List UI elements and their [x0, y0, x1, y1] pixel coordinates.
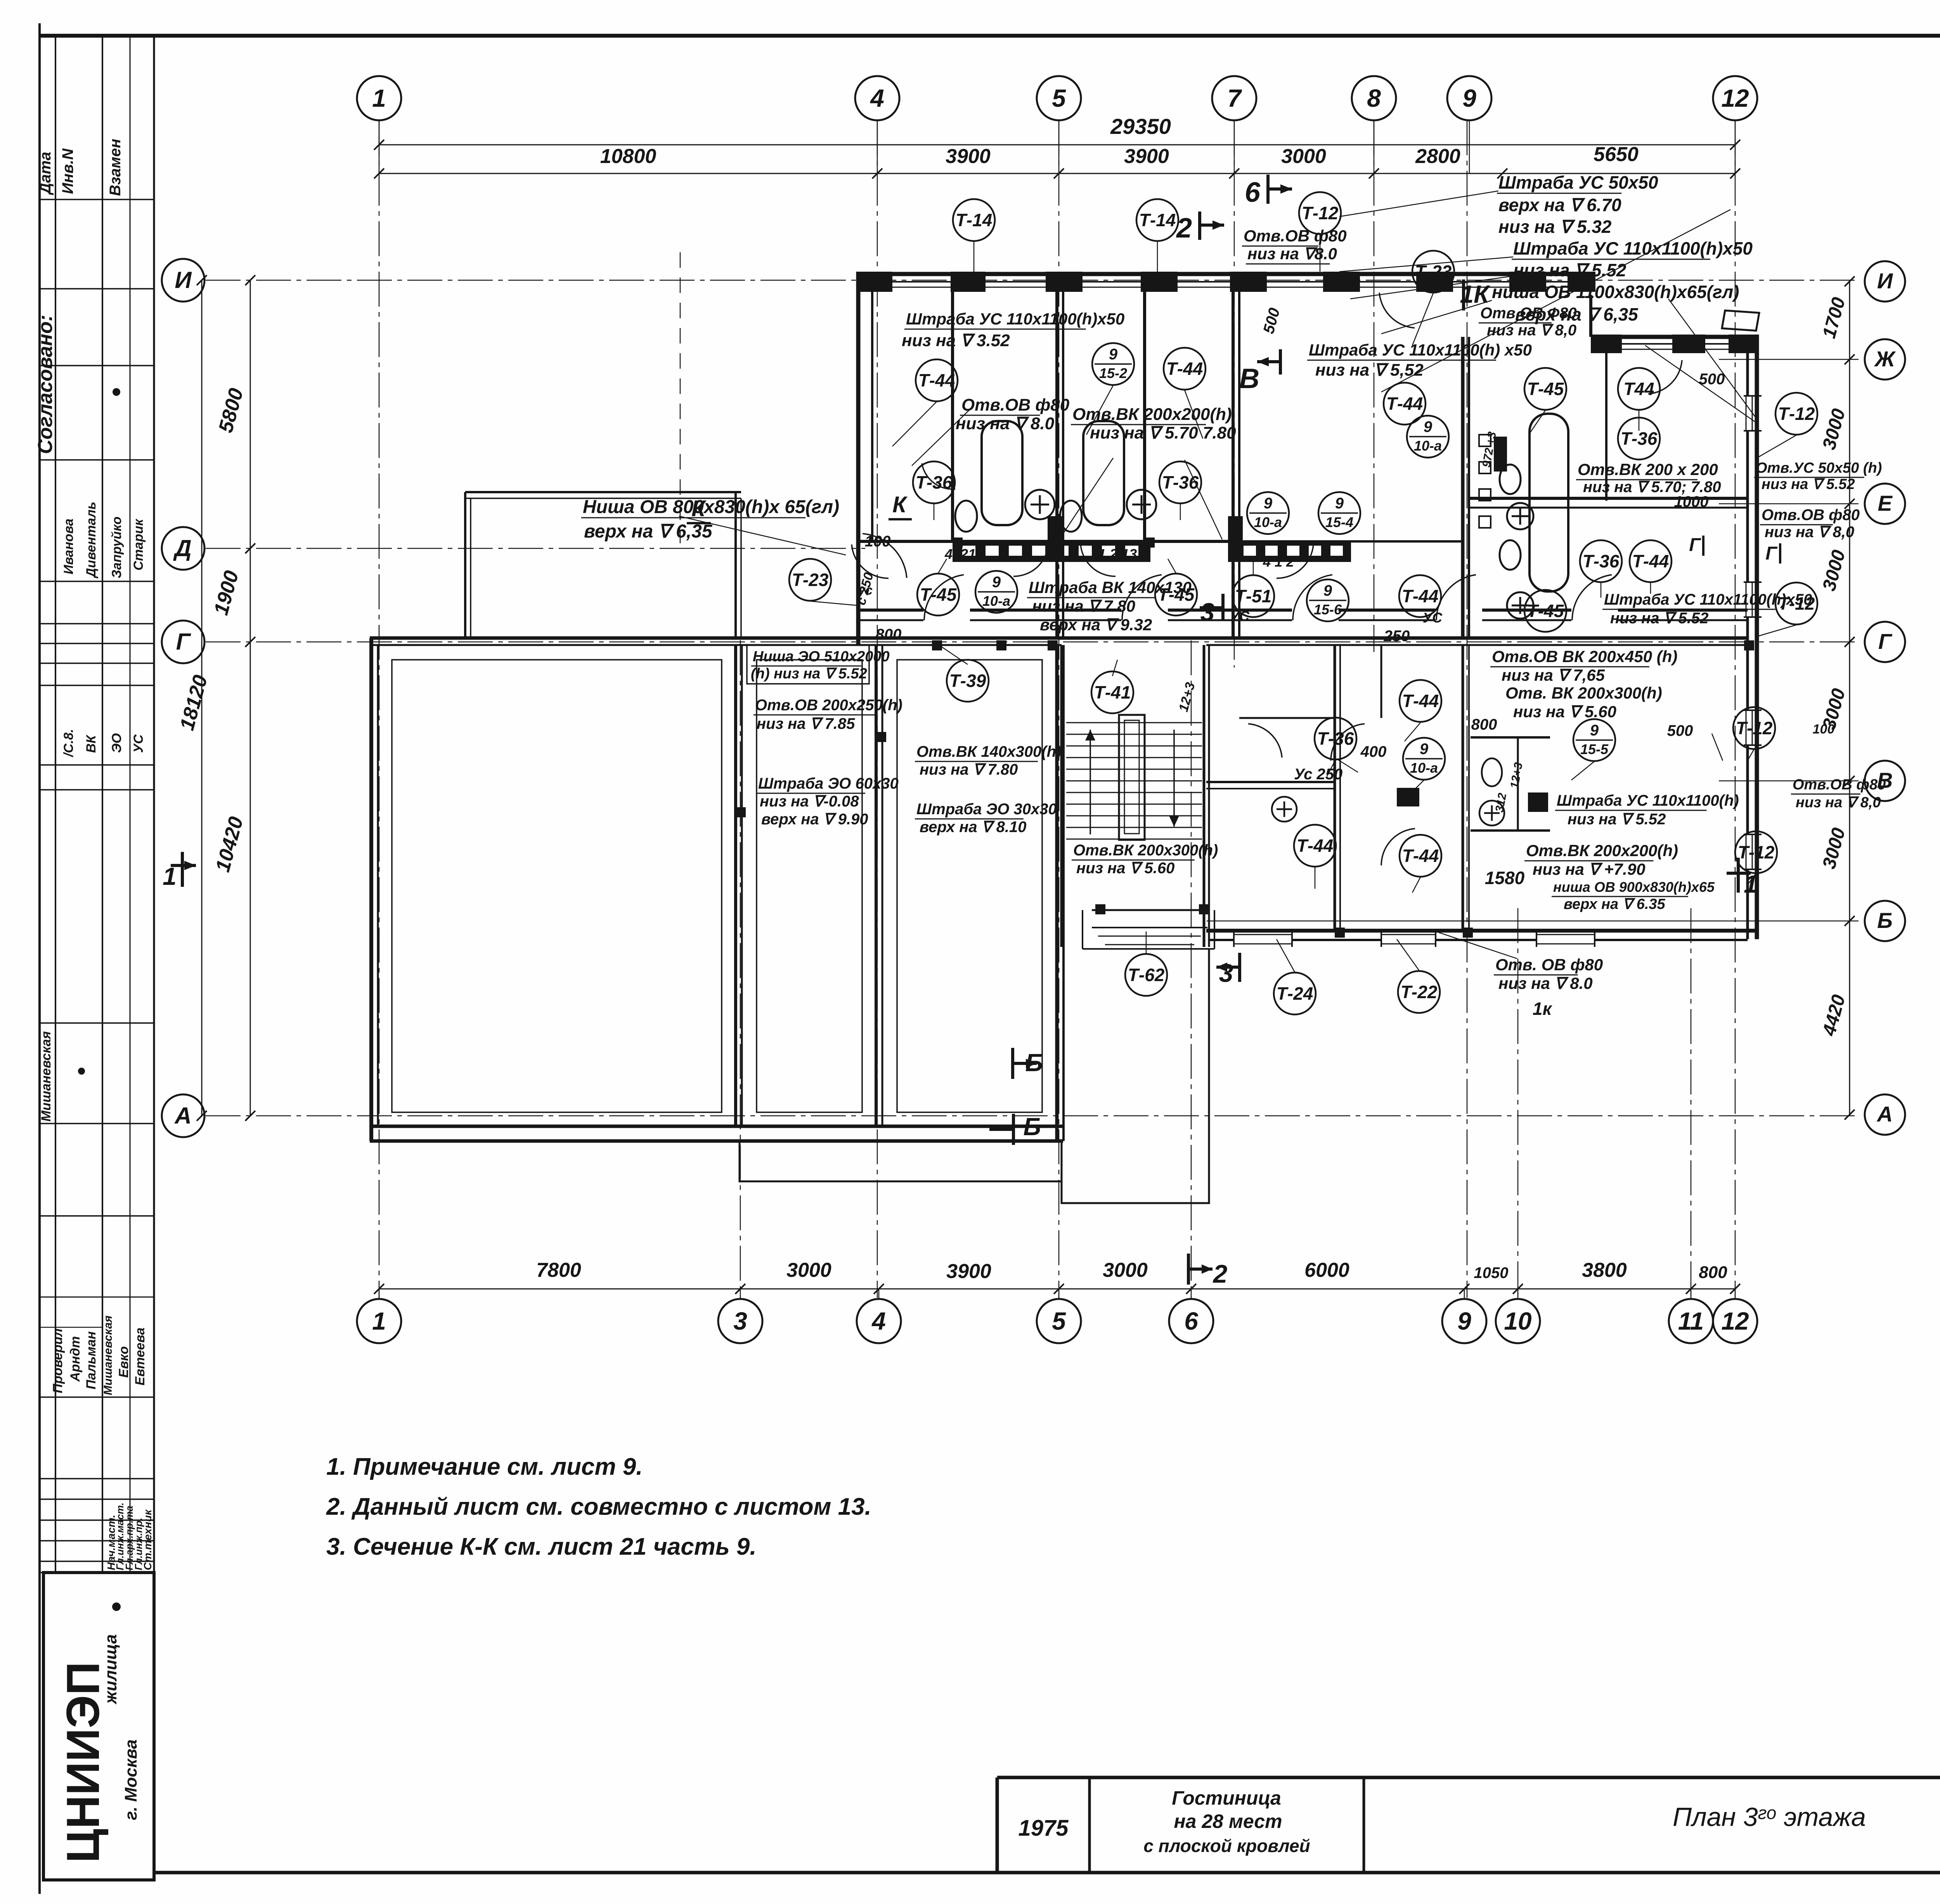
K dashed section line: [680, 252, 681, 543]
svg-text:В: В: [1239, 363, 1259, 394]
svg-text:5: 5: [1052, 84, 1066, 112]
svg-text:Старик: Старик: [131, 518, 146, 571]
svg-text:9: 9: [1424, 418, 1432, 435]
svg-text:Т-44: Т-44: [1166, 359, 1203, 379]
svg-text:Т-36: Т-36: [1583, 551, 1620, 571]
label circle Т-45: [917, 574, 959, 616]
svg-text:12: 12: [1721, 84, 1749, 112]
svg-text:Т-12: Т-12: [1778, 404, 1815, 424]
label circle Т44: [1618, 368, 1660, 410]
label circle Т-51: [1232, 575, 1274, 617]
label circle Т-44: [1164, 348, 1206, 390]
svg-text:Согласовано:: Согласовано:: [34, 315, 57, 454]
svg-text:6: 6: [1245, 177, 1261, 208]
svg-text:Т-44: Т-44: [1386, 394, 1423, 414]
built-in cabinets dark band left: [953, 540, 1150, 562]
svg-text:10-а: 10-а: [1410, 760, 1438, 776]
svg-text:Отв.ВК 200х200(h): Отв.ВК 200х200(h): [1072, 405, 1232, 424]
svg-text:Ниша ЭО 510х2000: Ниша ЭО 510х2000: [753, 649, 890, 665]
svg-text:4 1 2: 4 1 2: [1263, 554, 1294, 570]
svg-text:низ на ∇ 5.52: низ на ∇ 5.52: [1568, 811, 1666, 828]
label circle Т-44: [1400, 680, 1441, 722]
svg-text:низ на ∇ 7.85: низ на ∇ 7.85: [757, 715, 855, 732]
right axis circles: [1865, 261, 1905, 302]
svg-text:Мишаневская: Мишаневская: [102, 1315, 114, 1395]
horizontal axis lines: [206, 280, 1859, 281]
svg-text:Е: Е: [1878, 491, 1893, 515]
stair enclosure walls: [1060, 645, 1063, 947]
window niche flag 1K: [1722, 310, 1759, 331]
corridor south wall / Г axis wall: [370, 636, 1748, 640]
svg-text:400: 400: [1360, 743, 1387, 760]
upper annex hall rectangle: [465, 491, 741, 493]
svg-text:верх на ∇ 9.32: верх на ∇ 9.32: [1040, 616, 1152, 634]
svg-text:низ на ∇ 5.70 7.80: низ на ∇ 5.70 7.80: [1090, 423, 1236, 442]
sidebar stamp CNIIEP block: [43, 1573, 154, 1880]
svg-text:Т-44: Т-44: [1632, 551, 1669, 571]
built-in cabinets dark band right: [1235, 540, 1351, 562]
top overall dimension 29350: [379, 144, 1735, 146]
annex inner inset lines: [392, 660, 722, 1112]
corridor north wall: [858, 609, 923, 612]
svg-text:верх на ∇ 9.90: верх на ∇ 9.90: [761, 811, 868, 828]
svg-text:Отв. ОВ ф80: Отв. ОВ ф80: [1495, 955, 1603, 974]
label circle Т-22: [1398, 971, 1440, 1013]
svg-text:Гостиница: Гостиница: [1172, 1787, 1281, 1809]
label circle Т-45: [1524, 590, 1566, 632]
annex west wall: [369, 638, 373, 1141]
svg-text:Т-51: Т-51: [1235, 586, 1272, 606]
right wing wc: [1500, 465, 1521, 494]
label circle Т-12: [1775, 393, 1817, 435]
svg-text:15-5: 15-5: [1580, 741, 1609, 757]
svg-text:3000: 3000: [786, 1259, 831, 1281]
svg-text:9: 9: [1323, 582, 1332, 599]
north wall of right wing: [1591, 335, 1758, 339]
svg-text:Отв.ОВ ф80: Отв.ОВ ф80: [1793, 777, 1886, 793]
svg-text:800: 800: [1471, 716, 1497, 733]
label circle 9|15-2: [1092, 343, 1134, 385]
svg-text:Штраба УС 110х1100(h)х50: Штраба УС 110х1100(h)х50: [1604, 591, 1812, 608]
svg-text:Т-23: Т-23: [1415, 262, 1452, 282]
sidebar column lines: [55, 36, 56, 1573]
svg-text:10-а: 10-а: [1414, 438, 1442, 454]
svg-text:9: 9: [1457, 1307, 1471, 1335]
bathtub 1: [982, 421, 1022, 525]
svg-text:10: 10: [1504, 1307, 1531, 1335]
svg-text:9: 9: [1109, 346, 1118, 363]
label circle Т-12: [1775, 583, 1817, 624]
svg-text:3900: 3900: [946, 1260, 991, 1283]
svg-text:г. Москва: г. Москва: [121, 1739, 140, 1820]
label circle Т-12: [1735, 831, 1777, 873]
svg-text:А: А: [174, 1103, 191, 1129]
wc 1: [955, 501, 977, 532]
label circle Т-44: [1400, 835, 1441, 877]
svg-text:Т-36: Т-36: [1317, 728, 1354, 749]
svg-text:Т-14: Т-14: [1139, 210, 1176, 230]
svg-text:Т-36: Т-36: [1162, 472, 1199, 492]
svg-text:Отв.ВК 200 х 200: Отв.ВК 200 х 200: [1578, 460, 1718, 479]
label circle Т-36: [913, 461, 955, 503]
svg-text:250: 250: [1384, 628, 1410, 645]
svg-text:Евтеева: Евтеева: [133, 1328, 147, 1386]
label circle Т-14: [1136, 199, 1178, 241]
svg-text:верх на ∇ 6,35: верх на ∇ 6,35: [584, 521, 713, 542]
svg-text:11: 11: [1678, 1307, 1704, 1335]
svg-text:Штраба УС 110х1100(h)х50: Штраба УС 110х1100(h)х50: [1513, 238, 1753, 258]
svg-text:жилища: жилища: [101, 1634, 120, 1705]
annex partitions: [734, 645, 737, 1126]
svg-text:Отв.ОВ Ф80: Отв.ОВ Ф80: [1480, 305, 1577, 322]
partition along E axis in right wing: [1469, 497, 1748, 500]
svg-text:Т-44: Т-44: [1402, 586, 1439, 606]
svg-text:Штраба ЭО 60х30: Штраба ЭО 60х30: [758, 775, 899, 792]
label circle Т-12: [1299, 192, 1341, 234]
svg-text:Ст.техник: Ст.техник: [142, 1509, 154, 1570]
svg-text:5650: 5650: [1594, 143, 1639, 166]
bottom dimension line: [379, 1288, 1735, 1290]
svg-text:Б: Б: [1023, 1113, 1041, 1141]
vertical axis lines: [379, 120, 380, 1298]
label circle Т-44: [1294, 825, 1336, 867]
svg-text:15-6: 15-6: [1314, 602, 1342, 617]
svg-text:низ на ∇ 5.52: низ на ∇ 5.52: [1762, 476, 1855, 492]
right wing tall bathtub: [1529, 414, 1568, 591]
svg-text:Т-44: Т-44: [1402, 691, 1439, 711]
svg-text:2: 2: [1212, 1259, 1228, 1288]
svg-text:Г: Г: [1689, 535, 1701, 555]
svg-text:Т-12: Т-12: [1738, 842, 1775, 862]
svg-text:УС: УС: [131, 734, 146, 753]
svg-text:15-2: 15-2: [1099, 365, 1127, 381]
svg-text:1: 1: [372, 1307, 386, 1335]
svg-text:Ниша ОВ 800х830(h)х 65(гл): Ниша ОВ 800х830(h)х 65(гл): [583, 497, 839, 517]
svg-text:Т-45: Т-45: [1527, 379, 1564, 399]
svg-text:Г: Г: [176, 629, 192, 655]
label circle Т-24: [1274, 973, 1316, 1014]
svg-text:ЭО: ЭО: [109, 733, 124, 753]
svg-text:низ на ∇ 5.52: низ на ∇ 5.52: [1610, 610, 1708, 627]
left axis circles: [162, 259, 204, 302]
bottom axis circles: [357, 1299, 401, 1343]
svg-text:ус: ус: [857, 583, 873, 598]
svg-text:1975: 1975: [1018, 1816, 1069, 1841]
label circle Т-36: [1580, 540, 1622, 582]
svg-text:низ на ∇ 5.60: низ на ∇ 5.60: [1076, 860, 1174, 877]
label circle 9|15-5: [1573, 719, 1615, 761]
svg-text:8: 8: [1367, 84, 1381, 112]
svg-text:низ на ∇ 8.0: низ на ∇ 8.0: [956, 414, 1055, 433]
bathtub 2: [1083, 421, 1124, 525]
svg-text:Дата: Дата: [37, 152, 54, 195]
svg-text:К: К: [892, 492, 908, 517]
east outer wall: [1755, 335, 1759, 939]
svg-text:ниша ОВ 900х830(h)х65: ниша ОВ 900х830(h)х65: [1553, 879, 1715, 895]
svg-text:Штраба ВК 140х130: Штраба ВК 140х130: [1029, 578, 1192, 597]
north outer wall of upper block: [856, 272, 1595, 276]
svg-text:9: 9: [992, 574, 1001, 591]
svg-text:(h) низ на ∇ 5.52: (h) низ на ∇ 5.52: [751, 666, 867, 682]
svg-text:Отв.ОВ ВК 200х450 (h): Отв.ОВ ВК 200х450 (h): [1492, 647, 1677, 666]
right block bathroom cluster: [1471, 736, 1550, 739]
svg-text:1000: 1000: [1674, 493, 1709, 510]
svg-text:10-а: 10-а: [1254, 514, 1282, 530]
svg-text:3900: 3900: [946, 145, 991, 168]
label circle Т-45: [1524, 368, 1566, 410]
svg-text:4: 4: [871, 1307, 886, 1335]
svg-text:Ж: Ж: [1874, 347, 1896, 371]
svg-text:800: 800: [1699, 1263, 1727, 1282]
label circle Т-12: [1733, 707, 1775, 749]
wc 2: [1060, 501, 1082, 532]
svg-text:29350: 29350: [1110, 114, 1171, 139]
annotations annex rooms: [747, 645, 869, 684]
svg-text:низ на ∇ 3.52: низ на ∇ 3.52: [902, 331, 1010, 350]
svg-text:Т-44: Т-44: [1402, 846, 1439, 866]
label circle Т-62: [1125, 954, 1167, 996]
svg-text:7800: 7800: [536, 1259, 581, 1281]
label circle 9|10-а: [975, 571, 1017, 613]
svg-text:5: 5: [1052, 1307, 1066, 1335]
svg-text:низ на ∇ +7.90: низ на ∇ +7.90: [1533, 860, 1646, 878]
svg-text:УС: УС: [1230, 608, 1250, 624]
svg-text:Проверил: Проверил: [50, 1328, 65, 1393]
label circle Т-44: [1630, 540, 1672, 582]
svg-text:Т-12: Т-12: [1302, 203, 1339, 223]
bathroom band wall: [858, 540, 1234, 543]
svg-text:3: 3: [1219, 959, 1233, 987]
svg-text:100: 100: [865, 533, 891, 550]
svg-text:2800: 2800: [1415, 145, 1460, 168]
interior partitions of upper block: [951, 290, 954, 541]
svg-text:низ на ∇ 8,0: низ на ∇ 8,0: [1765, 524, 1854, 541]
svg-text:А: А: [1876, 1102, 1893, 1126]
page frame: [38, 23, 41, 1894]
svg-text:Т-24: Т-24: [1277, 983, 1313, 1004]
label circle Т-23: [1412, 251, 1454, 293]
svg-text:Б: Б: [1877, 908, 1893, 933]
svg-text:Т-12: Т-12: [1736, 718, 1773, 738]
svg-text:Штраба УС 110х1100(h)х50: Штраба УС 110х1100(h)х50: [906, 310, 1124, 328]
svg-text:низ на ∇ 5.32: низ на ∇ 5.32: [1498, 217, 1612, 237]
label circle 9|15-4: [1318, 492, 1360, 534]
sidebar row dividers: [40, 199, 154, 200]
svg-text:10800: 10800: [600, 145, 656, 168]
svg-text:3000: 3000: [1103, 1259, 1148, 1281]
title block: [997, 1776, 1940, 1779]
leader lines: [1381, 210, 1730, 392]
svg-text:1 2 13: 1 2 13: [1098, 546, 1137, 562]
svg-text:Штраба ЭО 30х30: Штраба ЭО 30х30: [916, 801, 1057, 818]
svg-text:низ на ∇ 8,0: низ на ∇ 8,0: [1487, 322, 1576, 339]
svg-text:800: 800: [876, 626, 902, 643]
label circle 9|10-а: [1403, 738, 1445, 780]
svg-text:Отв.ОВ 200х250(h): Отв.ОВ 200х250(h): [755, 697, 902, 714]
label circle Т-14: [953, 199, 995, 241]
label circle Т-44: [1384, 383, 1426, 425]
svg-text:низ на ∇ 5.52: низ на ∇ 5.52: [1513, 260, 1626, 280]
svg-text:Т-41: Т-41: [1094, 682, 1131, 702]
svg-text:1к: 1к: [1533, 999, 1553, 1019]
svg-text:с плоской кровлей: с плоской кровлей: [1143, 1836, 1310, 1856]
svg-text:3900: 3900: [1124, 145, 1169, 168]
svg-text:Инв.N: Инв.N: [59, 148, 76, 194]
right dimension line: [1849, 281, 1850, 1115]
svg-text:Штраба УС 50х50: Штраба УС 50х50: [1498, 172, 1658, 192]
svg-text:3800: 3800: [1582, 1259, 1627, 1281]
door arcs: [924, 575, 964, 620]
label circle Т-36: [1315, 718, 1356, 760]
svg-text:1: 1: [372, 84, 386, 112]
annex bottom wall: [370, 1125, 1063, 1128]
svg-text:Отв.УС 50х50 (h): Отв.УС 50х50 (h): [1756, 460, 1882, 476]
svg-text:Т-22: Т-22: [1401, 982, 1438, 1002]
stair arrows: [1090, 730, 1091, 834]
svg-text:Арндт: Арндт: [68, 1336, 83, 1382]
svg-text:Отв.ВК 200х300(h): Отв.ВК 200х300(h): [1073, 842, 1218, 859]
svg-text:9: 9: [1335, 495, 1344, 512]
svg-text:1580: 1580: [1485, 868, 1525, 888]
south wall of right block: [1206, 929, 1757, 933]
svg-text:на 28 мест: на 28 мест: [1174, 1810, 1282, 1832]
small partitions mid rooms: [1239, 717, 1335, 719]
label circle Т-39: [947, 660, 989, 702]
svg-text:4321ч: 4321ч: [944, 546, 984, 562]
svg-text:низ на ∇ 8.0: низ на ∇ 8.0: [1498, 974, 1593, 992]
label circle Т-44: [916, 359, 958, 401]
svg-text:Т-62: Т-62: [1128, 965, 1165, 985]
label circle 9|15-6: [1307, 579, 1349, 621]
svg-text:1. Примечание см. лист 9.: 1. Примечание см. лист 9.: [326, 1453, 643, 1480]
svg-text:15-4: 15-4: [1325, 514, 1353, 530]
svg-text:9: 9: [1590, 722, 1599, 739]
svg-text:Отв. ВК 200х300(h): Отв. ВК 200х300(h): [1505, 684, 1662, 702]
svg-text:Т-45: Т-45: [1527, 601, 1564, 621]
svg-text:Отв.ВК 200х200(h): Отв.ВК 200х200(h): [1526, 841, 1678, 860]
svg-text:ниша ОВ 1100х830(h)х65(гл): ниша ОВ 1100х830(h)х65(гл): [1492, 282, 1739, 302]
sink crosses: [1025, 490, 1055, 519]
svg-text:И: И: [175, 267, 192, 293]
label circle Т-41: [1091, 671, 1133, 713]
svg-text:низ на ∇ 7,65: низ на ∇ 7,65: [1502, 666, 1605, 684]
svg-text:Т44: Т44: [1623, 379, 1654, 399]
label circle Т-23: [789, 559, 831, 601]
svg-text:6: 6: [1184, 1307, 1198, 1335]
svg-text:Отв.ОВ ф80: Отв.ОВ ф80: [1244, 227, 1347, 245]
svg-text:500: 500: [1667, 722, 1693, 739]
svg-text:4: 4: [870, 84, 884, 112]
svg-text:низ на ∇ 5.60: низ на ∇ 5.60: [1513, 702, 1616, 721]
svg-text:7: 7: [1227, 84, 1242, 112]
svg-text:верх на ∇ 8.10: верх на ∇ 8.10: [920, 818, 1026, 836]
label circle Т-44: [1399, 575, 1441, 617]
svg-text:ВК: ВК: [84, 734, 99, 753]
svg-text:Отв.ОВ ф80: Отв.ОВ ф80: [961, 395, 1070, 414]
svg-text:3. Сечение К-К см. лист 21: 3. Сечение К-К см. лист 21 часть 9.: [326, 1533, 757, 1560]
svg-text:3000: 3000: [1281, 145, 1326, 168]
right block partitions: [1334, 645, 1336, 931]
stair stringer: [1119, 715, 1145, 840]
svg-text:Штраба УС 110х1100(h): Штраба УС 110х1100(h): [1557, 792, 1739, 809]
svg-text:Взамен: Взамен: [107, 139, 124, 196]
svg-text:100: 100: [1813, 722, 1835, 737]
svg-text:Пальман: Пальман: [84, 1331, 99, 1389]
west outer wall of upper block: [856, 272, 861, 644]
svg-text:Т-36: Т-36: [916, 472, 953, 492]
svg-text:9: 9: [1462, 84, 1476, 112]
svg-text:Ус 250: Ус 250: [1294, 766, 1342, 783]
svg-text:Штраба УС 110х1100(h) х50: Штраба УС 110х1100(h) х50: [1309, 341, 1532, 359]
svg-text:Т-14: Т-14: [956, 210, 993, 230]
svg-text:верх на ∇ 6.70: верх на ∇ 6.70: [1498, 195, 1621, 215]
svg-text:9: 9: [1264, 495, 1273, 512]
svg-text:Т-23: Т-23: [792, 570, 829, 590]
svg-text:низ на ∇ 7.80: низ на ∇ 7.80: [1032, 597, 1135, 615]
svg-text:Т-45: Т-45: [920, 584, 957, 605]
svg-text:Т-39: Т-39: [949, 671, 986, 691]
svg-text:низ на ∇-0.08: низ на ∇-0.08: [760, 793, 859, 810]
svg-text:9: 9: [1420, 740, 1429, 758]
stair treads: [1066, 722, 1202, 723]
svg-text:6000: 6000: [1304, 1259, 1349, 1281]
left dimension lines: [250, 280, 251, 1116]
label circle 9|10-а: [1247, 492, 1289, 534]
svg-text:Евко: Евко: [116, 1346, 131, 1378]
entrance steps: [1092, 909, 1207, 911]
svg-text:Т-44: Т-44: [1297, 836, 1334, 856]
junction blocks: [932, 640, 942, 650]
svg-text:УС: УС: [1423, 610, 1443, 626]
svg-text:3: 3: [1200, 598, 1215, 626]
porch outlines below annex: [740, 1141, 1062, 1181]
svg-text:низ на ∇ 8,0: низ на ∇ 8,0: [1796, 794, 1881, 811]
svg-text:12: 12: [1721, 1307, 1749, 1335]
label circle Т-36: [1618, 418, 1660, 460]
svg-text:Отв.ОВ ф80: Отв.ОВ ф80: [1762, 506, 1860, 524]
svg-text:Дивенталь: Дивенталь: [84, 502, 99, 579]
svg-text:Запруйко: Запруйко: [109, 517, 124, 578]
svg-text:10-а: 10-а: [982, 593, 1010, 609]
svg-text:Отв.ВК 140х300(h): Отв.ВК 140х300(h): [916, 743, 1061, 760]
svg-text:И: И: [1877, 269, 1893, 293]
label circle Т-45: [1155, 574, 1197, 616]
svg-text:Г: Г: [1878, 629, 1893, 654]
label circle Т-36: [1159, 461, 1201, 503]
svg-text:низ на ∇ 5,52: низ на ∇ 5,52: [1315, 361, 1424, 380]
svg-text:Мишаневская: Мишаневская: [39, 1031, 54, 1122]
svg-text:1050: 1050: [1474, 1264, 1509, 1281]
svg-text:3: 3: [733, 1307, 747, 1335]
top segment dimensions: [379, 173, 1735, 174]
svg-text:низ на ∇8.0: низ на ∇8.0: [1247, 245, 1337, 263]
svg-text:2. Данный лист см. совмест: 2. Данный лист см. совместно с листом 13…: [326, 1493, 871, 1520]
svg-text:верх на ∇ 6.35: верх на ∇ 6.35: [1564, 896, 1666, 912]
svg-text:низ на ∇ 7.80: низ на ∇ 7.80: [920, 761, 1018, 778]
right wing cabinet boxes: [1479, 435, 1491, 446]
svg-text:Г: Г: [1765, 543, 1778, 564]
hatched duct walls: [1048, 516, 1062, 562]
svg-text:/С.8.: /С.8.: [61, 729, 76, 758]
svg-text:Т-36: Т-36: [1621, 428, 1658, 449]
svg-text:500: 500: [1699, 371, 1725, 388]
svg-text:Т-44: Т-44: [918, 370, 955, 390]
label circle 9|10-а: [1407, 416, 1449, 458]
top axis circles: [357, 76, 401, 120]
svg-text:Д: Д: [173, 535, 191, 561]
axis extension stubs: [379, 120, 380, 173]
svg-text:Иванова: Иванова: [61, 518, 76, 574]
